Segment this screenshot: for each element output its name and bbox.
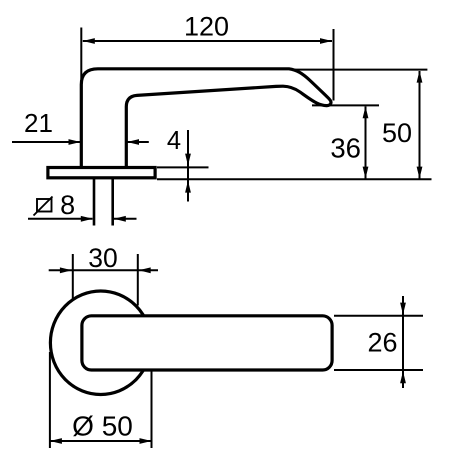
svg-text:4: 4 bbox=[167, 127, 181, 155]
svg-text:36: 36 bbox=[330, 132, 361, 163]
svg-text:30: 30 bbox=[88, 243, 117, 273]
svg-text:50: 50 bbox=[382, 118, 412, 148]
svg-text:Ø 50: Ø 50 bbox=[72, 411, 133, 442]
svg-text:120: 120 bbox=[184, 12, 229, 42]
svg-text:26: 26 bbox=[367, 328, 397, 358]
svg-text:21: 21 bbox=[24, 108, 53, 138]
svg-text:8: 8 bbox=[60, 190, 75, 220]
